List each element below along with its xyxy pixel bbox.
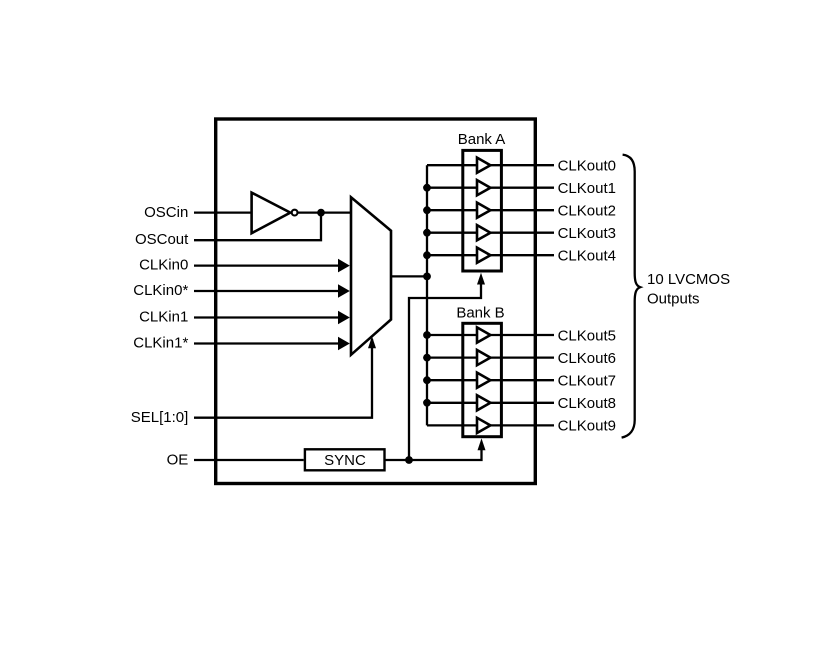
buffer B2 <box>477 373 490 388</box>
wire CLKout5 <box>490 334 554 336</box>
wire CLKout6 <box>490 356 554 358</box>
junction dot bus row 6 <box>423 354 431 362</box>
wire CLKout8 <box>490 402 554 404</box>
svg-text:CLKout5: CLKout5 <box>558 327 616 344</box>
junction dot SYNC output <box>405 456 413 464</box>
junction dot bus row 7 <box>423 376 431 384</box>
svg-text:CLKout2: CLKout2 <box>558 203 616 220</box>
junction dot bus row 3 <box>423 229 431 237</box>
junction dot bus row 2 <box>423 206 431 214</box>
wire inverter output to mux <box>298 211 350 213</box>
junction dot inverter output <box>317 209 325 217</box>
junction dot mux output on bus <box>423 273 431 281</box>
svg-text:CLKout0: CLKout0 <box>558 158 616 175</box>
svg-text:10 LVCMOS: 10 LVCMOS <box>647 271 730 288</box>
svg-text:SYNC: SYNC <box>324 452 366 469</box>
wire mux output to bus <box>391 275 427 277</box>
svg-text:CLKin0*: CLKin0* <box>133 282 188 299</box>
junction dot bus row 8 <box>423 399 431 407</box>
mux U2 <box>351 197 391 354</box>
buffer A4 <box>477 248 490 263</box>
wire bank B input row 3 <box>427 402 477 404</box>
svg-text:CLKin0: CLKin0 <box>139 257 188 274</box>
junction dot bus row 1 <box>423 184 431 192</box>
wire bank A input row 3 <box>427 232 477 234</box>
svg-text:CLKout4: CLKout4 <box>558 248 616 265</box>
svg-text:OSCout: OSCout <box>135 231 189 248</box>
svg-text:CLKin1: CLKin1 <box>139 309 188 326</box>
wire CLKin1 <box>194 311 350 325</box>
junction dot bus row 5 <box>423 331 431 339</box>
wire CLKout0 <box>490 164 554 166</box>
junction dot bus row 4 <box>423 251 431 259</box>
buffer A0 <box>477 158 490 173</box>
label 10 LVCMOS Outputs <box>647 271 730 308</box>
svg-text:CLKout7: CLKout7 <box>558 373 616 390</box>
wire bank B input row 0 <box>427 334 477 336</box>
svg-text:CLKout8: CLKout8 <box>558 395 616 412</box>
svg-text:CLKout3: CLKout3 <box>558 225 616 242</box>
buffer A2 <box>477 203 490 218</box>
wire CLKin1* <box>194 337 350 351</box>
bank A box <box>463 150 502 271</box>
svg-text:Bank A: Bank A <box>458 131 506 148</box>
buffer A3 <box>477 225 490 240</box>
wire bank A input row 1 <box>427 187 477 189</box>
bank B box <box>463 323 502 436</box>
wire OSCin input <box>194 211 251 213</box>
svg-text:Outputs: Outputs <box>647 291 700 308</box>
wire SYNC output to bank B enable <box>384 438 485 460</box>
sync block U3 <box>305 449 385 470</box>
wire CLKout3 <box>490 232 554 234</box>
svg-text:CLKout6: CLKout6 <box>558 350 616 367</box>
buffer B3 <box>477 395 490 410</box>
wire vertical distribution bus <box>426 165 428 425</box>
wire CLKout7 <box>490 379 554 381</box>
inverter U1 <box>252 193 298 234</box>
wire CLKout2 <box>490 209 554 211</box>
wire CLKin0* <box>194 284 350 298</box>
buffer B1 <box>477 350 490 365</box>
wire bank B input row 4 <box>427 424 477 426</box>
wire bank B input row 2 <box>427 379 477 381</box>
buffer B0 <box>477 327 490 342</box>
wire CLKout9 <box>490 424 554 426</box>
wire bank A input row 2 <box>427 209 477 211</box>
svg-text:Bank B: Bank B <box>456 305 504 322</box>
buffer B4 <box>477 418 490 433</box>
svg-text:CLKin1*: CLKin1* <box>133 334 188 351</box>
wire CLKout1 <box>490 187 554 189</box>
svg-text:SEL[1:0]: SEL[1:0] <box>131 409 189 426</box>
svg-text:CLKout1: CLKout1 <box>558 180 616 197</box>
wire SYNC riser to bank A enable <box>409 273 485 460</box>
svg-text:OSCin: OSCin <box>144 204 188 221</box>
wire OE input <box>194 459 304 461</box>
wire CLKout4 <box>490 254 554 256</box>
wire CLKin0 <box>194 259 350 273</box>
svg-text:OE: OE <box>167 452 189 469</box>
buffer A1 <box>477 180 490 195</box>
wire bank B input row 1 <box>427 356 477 358</box>
wire bank A input row 0 <box>427 164 477 166</box>
brace 10 outputs <box>622 155 641 438</box>
svg-text:CLKout9: CLKout9 <box>558 418 616 435</box>
wire OSCout feedback <box>194 214 321 240</box>
chip boundary <box>216 119 536 484</box>
wire SEL select input <box>194 336 376 418</box>
wire bank A input row 4 <box>427 254 477 256</box>
